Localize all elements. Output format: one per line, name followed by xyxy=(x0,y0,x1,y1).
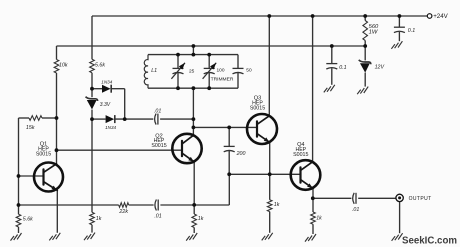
svg-text:10k: 10k xyxy=(59,62,68,68)
svg-text:.01: .01 xyxy=(154,213,161,219)
svg-text:5.6k: 5.6k xyxy=(95,62,105,68)
svg-text:1k: 1k xyxy=(198,216,204,222)
svg-text:S0015: S0015 xyxy=(293,152,308,158)
svg-text:22k: 22k xyxy=(118,209,128,215)
svg-text:S0015: S0015 xyxy=(151,143,166,149)
svg-text:0.1: 0.1 xyxy=(339,65,346,71)
svg-text:.01: .01 xyxy=(352,207,359,213)
svg-text:1W: 1W xyxy=(369,29,378,35)
svg-text:S0015: S0015 xyxy=(36,152,51,158)
svg-text:L1: L1 xyxy=(151,68,157,74)
svg-text:200: 200 xyxy=(236,151,246,157)
svg-text:25: 25 xyxy=(189,69,195,75)
svg-text:TRIMMER: TRIMMER xyxy=(211,77,234,83)
svg-text:100: 100 xyxy=(217,68,225,74)
svg-text:12V: 12V xyxy=(375,64,385,70)
svg-text:OUTPUT: OUTPUT xyxy=(409,196,432,202)
svg-text:5.6k: 5.6k xyxy=(23,217,33,223)
svg-text:SeekIC.com: SeekIC.com xyxy=(402,235,457,246)
svg-text:15k: 15k xyxy=(26,125,35,131)
svg-text:1N34: 1N34 xyxy=(105,125,116,130)
svg-text:.01: .01 xyxy=(154,108,161,114)
svg-text:0.1: 0.1 xyxy=(408,28,415,34)
svg-text:+24V: +24V xyxy=(433,13,448,20)
svg-text:1k: 1k xyxy=(96,216,102,222)
svg-text:50: 50 xyxy=(246,68,252,74)
svg-text:S0015: S0015 xyxy=(250,106,265,112)
svg-text:1N34: 1N34 xyxy=(101,80,112,85)
svg-text:3.3V: 3.3V xyxy=(100,102,111,108)
svg-text:1k: 1k xyxy=(274,202,280,208)
svg-text:1k: 1k xyxy=(316,216,322,222)
